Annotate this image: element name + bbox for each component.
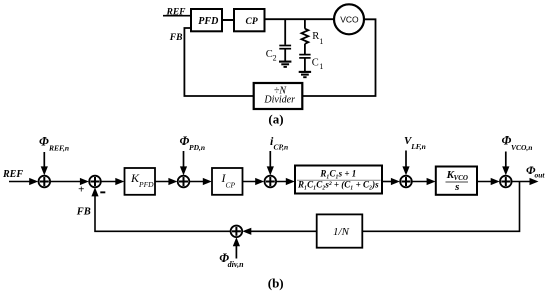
svg-text:PFD: PFD xyxy=(198,16,218,27)
svg-text:Φ: Φ xyxy=(39,135,49,149)
svg-text:Φ: Φ xyxy=(180,134,190,148)
svg-text:FB: FB xyxy=(76,206,91,217)
svg-text:div,n: div,n xyxy=(228,260,244,269)
svg-text:C: C xyxy=(312,57,319,68)
svg-text:Φ: Φ xyxy=(502,134,512,148)
svg-text:REF: REF xyxy=(2,169,23,180)
svg-text:+: + xyxy=(78,184,84,196)
svg-text:(a): (a) xyxy=(268,111,283,126)
svg-text:1: 1 xyxy=(319,62,323,71)
svg-text:CP: CP xyxy=(246,17,258,27)
svg-text:CP,n: CP,n xyxy=(274,143,289,152)
svg-text:VCO: VCO xyxy=(340,14,359,24)
svg-text:REF,n: REF,n xyxy=(48,144,69,153)
svg-text:Divider: Divider xyxy=(263,94,295,105)
svg-text:R₁C₁s + 1: R₁C₁s + 1 xyxy=(319,169,356,179)
svg-text:REF: REF xyxy=(166,7,187,17)
svg-text:(b): (b) xyxy=(268,276,284,291)
svg-text:FB: FB xyxy=(169,33,183,43)
svg-text:CP: CP xyxy=(226,180,236,189)
svg-text:VCO,n: VCO,n xyxy=(511,143,532,152)
svg-text:PFD: PFD xyxy=(138,180,154,189)
svg-text:LF,n: LF,n xyxy=(410,142,426,151)
svg-text:1: 1 xyxy=(319,37,323,46)
svg-text:2: 2 xyxy=(273,53,277,62)
svg-text:PD,n: PD,n xyxy=(189,143,205,152)
svg-text:s: s xyxy=(454,181,459,193)
svg-text:out: out xyxy=(535,170,546,179)
svg-text:R₁C₁C₂s² + (C₁ + C₂)s: R₁C₁C₂s² + (C₁ + C₂)s xyxy=(297,180,379,190)
svg-text:R: R xyxy=(312,31,319,42)
svg-text:1/N: 1/N xyxy=(333,226,350,238)
